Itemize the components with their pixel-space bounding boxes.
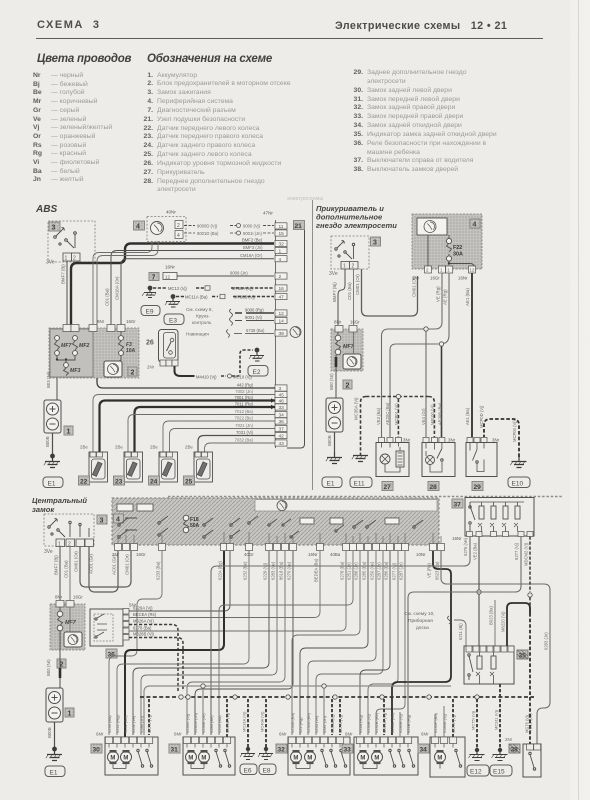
svg-text:E15: E15 <box>493 769 505 776</box>
wire labels above socket 27 <box>376 402 399 425</box>
svg-text:6211 (Bj): 6211 (Bj) <box>458 623 463 640</box>
ground E8 <box>258 711 276 775</box>
svg-text:6287 (Jn): 6287 (Jn) <box>322 715 327 733</box>
svg-text:37: 37 <box>279 427 285 433</box>
svg-text:6283 (Ve): 6283 (Ve) <box>271 561 276 580</box>
svg-text:10Nr: 10Nr <box>416 552 426 557</box>
svg-text:2: 2 <box>177 223 180 229</box>
wire labels above socket 28 <box>421 402 442 425</box>
svg-text:контроль: контроль <box>192 320 212 325</box>
label 47Nr <box>263 211 273 216</box>
svg-text:VE4 (Gr): VE4 (Gr) <box>421 408 426 425</box>
svg-text:4: 4 <box>279 257 282 263</box>
svg-text:CM01 (Or): CM01 (Or) <box>125 554 130 575</box>
wire 7022 (Be) pin 36 <box>163 416 275 453</box>
svg-text:3: 3 <box>52 225 56 232</box>
header left <box>37 19 101 31</box>
svg-text:4: 4 <box>473 222 477 229</box>
svg-text:6232 (Be): 6232 (Be) <box>123 715 128 733</box>
battery 1 (lighter section) <box>326 398 343 452</box>
wire labels lock 30 <box>107 714 152 733</box>
stub wires locks 33 34 <box>400 706 444 737</box>
svg-text:6232B (Be): 6232B (Be) <box>374 712 379 733</box>
ground node for MC11A <box>165 294 180 307</box>
svg-text:B00B: B00B <box>327 435 332 446</box>
wire 7021 (Jn) pin 37 <box>170 423 276 452</box>
svg-text:6Mr: 6Mr <box>279 732 287 737</box>
wire colour list <box>33 72 112 185</box>
wire BMF2 (Be) thick S-route to pin 32 <box>71 238 274 328</box>
fuse F22 30A <box>446 235 463 261</box>
svg-text:MC76 (Vj): MC76 (Vj) <box>524 714 529 733</box>
svg-text:40Ba: 40Ba <box>330 552 341 557</box>
cigarette lighter 27 <box>376 438 411 492</box>
ground E6 <box>240 711 257 775</box>
header rule <box>36 38 543 40</box>
ECU wire labels rotated <box>156 558 440 582</box>
fuse box 4 (lighter section) <box>412 214 482 269</box>
svg-text:6232A (Be): 6232A (Be) <box>306 712 311 733</box>
svg-text:7031 (Vi): 7031 (Vi) <box>236 430 254 435</box>
svg-text:1: 1 <box>279 249 282 255</box>
svg-text:47Nr: 47Nr <box>263 211 273 216</box>
driver side switches 37 <box>452 498 534 542</box>
svg-text:2Be: 2Be <box>150 445 158 450</box>
svg-text:B00 (Nr): B00 (Nr) <box>329 373 334 390</box>
svg-text:6251 (Ve): 6251 (Ve) <box>131 715 136 733</box>
wheel sensor 25 <box>184 445 213 486</box>
svg-text:9009 (Jn): 9009 (Jn) <box>230 271 248 276</box>
svg-text:BECEA (Rs): BECEA (Rs) <box>133 612 157 617</box>
svg-text:VE3 (Ba): VE3 (Ba) <box>376 407 381 425</box>
ABS module icon <box>290 327 301 338</box>
tailgate switch 38 <box>505 714 541 777</box>
wire B03 (Nr) from fuse box bottom <box>46 371 57 400</box>
wire MC12 / M780A (Vj) to pin 16 <box>153 286 274 291</box>
svg-text:6221 (Rg): 6221 (Rg) <box>115 715 120 733</box>
page edge shading <box>570 0 590 800</box>
svg-text:AE20B (Ba): AE20B (Ba) <box>437 402 442 425</box>
svg-text:9001 (Vi): 9001 (Vi) <box>245 315 263 320</box>
svg-text:23: 23 <box>115 479 123 486</box>
svg-text:7032 (Ba): 7032 (Ba) <box>235 438 254 443</box>
svg-text:3: 3 <box>100 518 104 525</box>
svg-text:3: 3 <box>373 240 377 247</box>
svg-text:M: M <box>374 756 379 762</box>
svg-text:38: 38 <box>511 747 519 754</box>
wire 6251 (Jn) to lock 31 <box>219 551 353 735</box>
faint page remnant text <box>287 196 323 202</box>
svg-text:CM01 (Or): CM01 (Or) <box>355 274 360 295</box>
svg-text:6283 (Be): 6283 (Be) <box>209 715 214 733</box>
svg-text:M: M <box>307 756 312 762</box>
svg-text:6287 (Jn): 6287 (Jn) <box>399 562 404 580</box>
wire BMF3 (Jn) to pin 1 <box>105 245 275 327</box>
wire 9001D/9001I to pin 15 <box>184 231 274 236</box>
ECU bottom connector row <box>115 544 445 551</box>
door lock 30 <box>91 732 158 776</box>
svg-text:BMF7 (Bj): BMF7 (Bj) <box>54 555 59 575</box>
svg-text:9000D (Vj): 9000D (Vj) <box>197 224 218 229</box>
wire 9000 (Rg) to pin 12 <box>235 308 274 314</box>
svg-text:622B (Rg): 622B (Rg) <box>406 714 411 733</box>
column heading: legend <box>147 53 272 65</box>
svg-text:E1: E1 <box>48 481 56 488</box>
wire BMF7 (Bj) to MF7 box <box>332 269 345 325</box>
ECU internal relay glyphs <box>117 504 213 538</box>
svg-text:E3: E3 <box>169 318 177 325</box>
wire 442 (Rg) pin 3 <box>97 378 275 388</box>
svg-text:6232G (Jn): 6232G (Jn) <box>193 712 198 733</box>
svg-text:MF7: MF7 <box>61 343 72 349</box>
svg-text:BMF2 (Be): BMF2 (Be) <box>242 238 263 243</box>
wire B00 (Nr) to battery <box>329 355 336 398</box>
svg-text:MC12 (Vj): MC12 (Vj) <box>168 286 187 291</box>
svg-text:622A (Rg): 622A (Rg) <box>358 714 363 733</box>
svg-text:2: 2 <box>68 542 71 548</box>
svg-text:622A (Rg): 622A (Rg) <box>218 561 223 580</box>
svg-text:MC73 (Vj): MC73 (Vj) <box>338 714 343 733</box>
dashed main bus MC7x <box>140 684 534 748</box>
svg-text:E10: E10 <box>512 481 524 488</box>
svg-text:2Nr: 2Nr <box>505 737 513 742</box>
brake fluid indicator 26 <box>146 330 178 370</box>
ECU connector group labels <box>112 552 426 557</box>
clock module in fuse box 2 <box>104 361 122 377</box>
svg-text:6283 (Jn): 6283 (Jn) <box>544 632 549 650</box>
central locking ECU (BSI) <box>112 498 439 545</box>
svg-text:M: M <box>201 756 206 762</box>
wire 6287B to lock 33 <box>376 551 405 735</box>
wire 9000D/9000 (Vj) to pin 11 <box>184 224 274 229</box>
svg-text:6276 (Ve): 6276 (Ve) <box>463 537 468 556</box>
svg-text:BMF3 (Jn): BMF3 (Jn) <box>243 245 263 250</box>
svg-text:M: M <box>437 756 442 762</box>
wire labels lock 33 <box>358 712 411 733</box>
ignition switch 3 (lighter section) <box>329 236 381 277</box>
svg-text:M8100 (Vj): M8100 (Vj) <box>430 404 435 425</box>
svg-text:16Gr: 16Gr <box>126 319 136 324</box>
svg-text:3Nr: 3Nr <box>492 438 500 443</box>
svg-text:E11: E11 <box>354 481 365 488</box>
svg-text:Приборная: Приборная <box>408 618 433 624</box>
svg-text:30A: 30A <box>453 252 463 258</box>
fuse box 2 top connector boxes <box>63 319 136 332</box>
svg-text:M: M <box>110 756 115 762</box>
svg-text:MC311 (Vj): MC311 (Vj) <box>494 709 499 730</box>
svg-text:6270 (Ve): 6270 (Ve) <box>287 561 292 580</box>
note navigation + wire 6738 (Ba) pin 39 <box>186 328 274 338</box>
svg-text:2Nr: 2Nr <box>147 365 155 370</box>
ground E2 <box>248 348 268 376</box>
wire AE1 (Ba) thick <box>465 273 472 437</box>
ECU pin stubs <box>118 532 441 543</box>
svg-text:6263 (Ba): 6263 (Ba) <box>217 715 222 733</box>
svg-text:3Ve: 3Ve <box>329 271 338 277</box>
svg-text:MC75 (Vj): MC75 (Vj) <box>451 714 456 733</box>
svg-text:33: 33 <box>344 747 352 754</box>
wire B023 (Ba) <box>489 600 496 646</box>
svg-text:Центральный: Центральный <box>32 496 87 505</box>
svg-text:2Be: 2Be <box>115 445 123 450</box>
svg-text:MDCM2 (Vj): MDCM2 (Vj) <box>524 542 529 566</box>
wire M4410 / MC10 (Vj) <box>175 366 253 380</box>
diagnostic connector 7 <box>149 265 177 282</box>
svg-text:34: 34 <box>420 747 428 754</box>
svg-text:AE20C (Ba): AE20C (Ba) <box>385 402 390 425</box>
svg-text:M: M <box>293 756 298 762</box>
svg-text:14: 14 <box>279 319 285 325</box>
ground node for MC12 <box>142 286 156 298</box>
door lock 34 <box>418 732 465 778</box>
svg-text:M626B (Vj): M626B (Vj) <box>133 632 155 637</box>
solid mid bus <box>144 684 451 735</box>
svg-text:7021 (Jn): 7021 (Jn) <box>235 423 253 428</box>
central lock title <box>32 496 87 514</box>
svg-text:Круиз-: Круиз- <box>196 314 210 319</box>
svg-text:6229A (Vj): 6229A (Vj) <box>133 606 153 611</box>
svg-text:MC40A (Vj): MC40A (Vj) <box>260 711 265 732</box>
svg-text:6233D (Ba): 6233D (Ba) <box>390 712 395 733</box>
svg-text:6Mr: 6Mr <box>174 732 182 737</box>
svg-text:50A: 50A <box>190 523 200 529</box>
wire 9001 (Vi) to pin 14 <box>235 315 274 321</box>
svg-text:442 (Rg): 442 (Rg) <box>237 383 254 388</box>
svg-text:замок: замок <box>32 505 55 514</box>
svg-text:7011 (Rg): 7011 (Rg) <box>235 402 254 407</box>
svg-text:3Ve: 3Ve <box>46 260 55 266</box>
svg-text:6Mr: 6Mr <box>345 732 353 737</box>
wire AC01 (Gr) U-loop <box>89 547 119 593</box>
wire 7012 (Ba) pin 34 <box>128 409 275 452</box>
wire 7011 (Rg) pin 33 <box>135 402 276 453</box>
front power socket 28 <box>422 438 456 492</box>
fuse MF3 <box>56 356 81 376</box>
wire 622A (Rg) thick to lock 30 <box>125 551 224 737</box>
svg-text:MCP00 (Vj): MCP00 (Vj) <box>512 420 517 442</box>
svg-text:Навигация: Навигация <box>186 332 209 337</box>
svg-text:MC72 (Vj): MC72 (Vj) <box>147 714 152 733</box>
svg-text:36: 36 <box>108 652 116 659</box>
svg-text:6233 (Ba): 6233 (Ba) <box>156 561 161 580</box>
svg-text:6233E (Jn): 6233E (Jn) <box>201 713 206 733</box>
svg-text:2: 2 <box>73 256 76 262</box>
fuse F3 10A <box>110 332 136 367</box>
svg-text:2Nr: 2Nr <box>412 276 420 281</box>
svg-text:MF2: MF2 <box>79 343 89 349</box>
svg-text:ABS: ABS <box>35 204 57 215</box>
wheel sensor 24 <box>149 445 178 486</box>
svg-text:47: 47 <box>279 295 285 301</box>
svg-text:30: 30 <box>93 747 101 754</box>
svg-text:32: 32 <box>278 747 286 754</box>
svg-text:6277 (Vj): 6277 (Vj) <box>514 542 519 560</box>
tag 2 (lighter MF7) <box>343 380 352 390</box>
wire AE (Rg) from box 4 <box>390 273 449 437</box>
svg-text:E8: E8 <box>263 768 271 775</box>
E10 riser MCP00 <box>484 419 519 457</box>
svg-text:B023 (Ba): B023 (Ba) <box>489 606 494 625</box>
wire labels lock 32 <box>290 712 343 733</box>
fuse MF7 <box>55 336 73 356</box>
wire 6276 (Ve) long run to lock 31 <box>211 537 470 736</box>
wire 7002 (Jn) pin 45 <box>93 389 275 452</box>
wire 6233 (Ba) to lock 30 <box>109 551 162 735</box>
wire BMF7 (Bj) ignition to fuse box <box>61 261 68 326</box>
fuse box MF7 (lighter section) <box>331 320 363 372</box>
wire VE (Rg) from box 4 <box>382 273 443 437</box>
ground E11 <box>350 456 372 488</box>
svg-text:B03 (Nr): B03 (Nr) <box>46 371 51 388</box>
wire labels above socket 29 <box>465 405 484 428</box>
svg-text:3Nr: 3Nr <box>403 438 411 443</box>
svg-text:BEDEA (Ba): BEDEA (Ba) <box>314 558 319 582</box>
rear power socket 29 <box>466 438 500 492</box>
svg-text:MC11A (Ba): MC11A (Ba) <box>185 295 208 300</box>
svg-text:8618 (Ba): 8618 (Ba) <box>279 561 284 580</box>
header right <box>335 20 507 32</box>
wire 6229 (Vj) to lock 30 <box>133 551 269 735</box>
svg-text:2: 2 <box>131 370 135 377</box>
svg-text:16Nr: 16Nr <box>308 552 318 557</box>
svg-text:36: 36 <box>279 419 285 425</box>
legend list 29-38 <box>350 69 580 175</box>
svg-text:12: 12 <box>165 275 171 280</box>
svg-text:E1: E1 <box>50 770 58 777</box>
svg-text:7022 (Be): 7022 (Be) <box>235 416 254 421</box>
svg-text:VE (Rg): VE (Rg) <box>427 563 432 578</box>
ground E1 (lighter section) <box>322 452 342 488</box>
wire 6232 (Be) to lock 30 <box>117 551 249 735</box>
note instrument panel <box>404 611 435 631</box>
svg-text:6288 (Jn): 6288 (Jn) <box>354 562 359 580</box>
svg-text:6233A (Ba): 6233A (Ba) <box>290 712 295 733</box>
svg-text:доска: доска <box>416 626 429 631</box>
svg-text:электросхемы: электросхемы <box>287 196 323 202</box>
fuse F18 50A in ECU <box>183 515 199 533</box>
svg-text:E12: E12 <box>470 769 482 776</box>
svg-text:гнездо электросети: гнездо электросети <box>316 221 397 230</box>
svg-text:24: 24 <box>150 479 158 486</box>
wire 6286 (Ba) to lock 33 <box>360 551 390 735</box>
svg-text:1: 1 <box>68 711 72 718</box>
fuse MF2 <box>73 336 90 356</box>
ground E12 <box>467 710 489 776</box>
ignition switch 3 (ABS) <box>46 221 95 266</box>
svg-text:42: 42 <box>279 434 285 440</box>
svg-text:16Gr: 16Gr <box>136 552 146 557</box>
svg-text:6286 (Ba): 6286 (Ba) <box>384 561 389 580</box>
squiggle 6211 <box>448 616 467 646</box>
wire 7032 (Ba) pin 43 <box>205 438 276 453</box>
svg-text:6278 (Ba): 6278 (Ba) <box>133 626 152 631</box>
svg-text:CM01 (Or): CM01 (Or) <box>74 551 79 572</box>
svg-text:6623 (Ba): 6623 (Ba) <box>435 561 440 580</box>
child safety relay 36 <box>90 603 137 659</box>
svg-text:4: 4 <box>136 224 140 231</box>
wire M626B (Vj) dashed <box>129 632 183 692</box>
svg-text:E1: E1 <box>327 481 335 488</box>
door lock 33 <box>342 732 418 776</box>
svg-text:MC31A (Vj): MC31A (Vj) <box>242 711 247 732</box>
svg-text:6233B (Vj): 6233B (Vj) <box>366 713 371 733</box>
svg-text:2: 2 <box>346 383 350 390</box>
column heading: wire colours <box>37 53 131 65</box>
svg-text:7012 (Ba): 7012 (Ba) <box>235 409 254 414</box>
svg-text:C01 (Ba): C01 (Ba) <box>347 282 352 300</box>
svg-text:См. схему 10,: См. схему 10, <box>404 611 435 617</box>
svg-text:E2: E2 <box>253 369 261 376</box>
wire labels lock 34 <box>433 712 456 733</box>
ECU switch glyphs right <box>230 516 423 538</box>
svg-text:31: 31 <box>171 747 179 754</box>
svg-text:6287 (Jn): 6287 (Jn) <box>377 562 382 580</box>
wire 6277 (Vj) to lock 33 <box>368 551 398 735</box>
svg-text:622 (Rg): 622 (Rg) <box>298 717 303 733</box>
svg-text:M626A (Vj): M626A (Vj) <box>133 619 154 624</box>
svg-text:6232 (Be): 6232 (Be) <box>243 561 248 580</box>
svg-text:M: M <box>188 756 193 762</box>
door lock 32 <box>276 732 350 776</box>
svg-text:12: 12 <box>470 268 475 273</box>
ABS pin boxes column <box>275 223 287 447</box>
svg-text:12: 12 <box>279 311 285 317</box>
wire MDCM2 (Vj) dashed <box>524 537 533 614</box>
wire 6278 (Ba) <box>129 551 346 631</box>
section title: cigarette lighter <box>316 204 397 230</box>
battery 1 (ABS) <box>44 400 73 455</box>
svg-text:MF3: MF3 <box>70 368 80 374</box>
svg-text:8Nr: 8Nr <box>55 595 63 600</box>
svg-text:AC01 (Gr): AC01 (Gr) <box>112 554 117 575</box>
wire 6270 (Ve) to lock 31 <box>195 551 293 735</box>
ground E15 <box>490 709 512 776</box>
wire MC11A / M780B (Vj) to pin 47 <box>176 294 274 299</box>
section separator vertical <box>312 200 314 490</box>
wire 8618 (Ba) to lock 31 <box>187 551 285 735</box>
svg-text:MF7: MF7 <box>65 620 77 626</box>
svg-text:F22: F22 <box>453 245 462 251</box>
wire CM16A (Or) to pin 4 <box>115 253 275 327</box>
wire 7001 (Rg) pin 46 <box>100 395 276 452</box>
svg-text:7002 (Jn): 7002 (Jn) <box>235 389 253 394</box>
wire 6285 (Ba) to lock 32 <box>300 551 368 735</box>
ground E10 <box>508 457 530 488</box>
svg-text:9001D (Ba): 9001D (Ba) <box>197 231 219 236</box>
svg-text:CM16A (Or): CM16A (Or) <box>240 253 263 258</box>
svg-text:2: 2 <box>352 264 355 270</box>
svg-text:M626D (Vj): M626D (Vj) <box>225 712 230 733</box>
ABS ECU 21 module outline <box>276 220 305 448</box>
note cruise control <box>186 307 233 326</box>
door lock 31 <box>169 732 235 776</box>
wire 6287 (Jn) to lock 32 <box>316 551 383 735</box>
svg-text:6250 (Ve): 6250 (Ve) <box>370 561 375 580</box>
svg-text:M780B (Vj): M780B (Vj) <box>234 295 256 300</box>
wire C01 (Ba) to MF7 box <box>347 269 354 325</box>
wire 6623/6283 right riser to switch 38 <box>441 551 550 744</box>
svg-text:VE (Rg): VE (Rg) <box>436 286 441 302</box>
tag 2 (central MF7) <box>57 659 66 669</box>
svg-text:VE2 (Ba): VE2 (Ba) <box>473 542 478 560</box>
svg-text:2Be: 2Be <box>185 445 193 450</box>
wire BMF7 (Bj) central <box>54 547 61 601</box>
dashed riser to ground E2 <box>240 350 253 373</box>
svg-text:39: 39 <box>279 331 285 337</box>
svg-text:28: 28 <box>430 484 438 491</box>
svg-text:M6220 (Vj): M6220 (Vj) <box>501 611 506 632</box>
wire M626A (Vj) dashed <box>129 619 178 692</box>
